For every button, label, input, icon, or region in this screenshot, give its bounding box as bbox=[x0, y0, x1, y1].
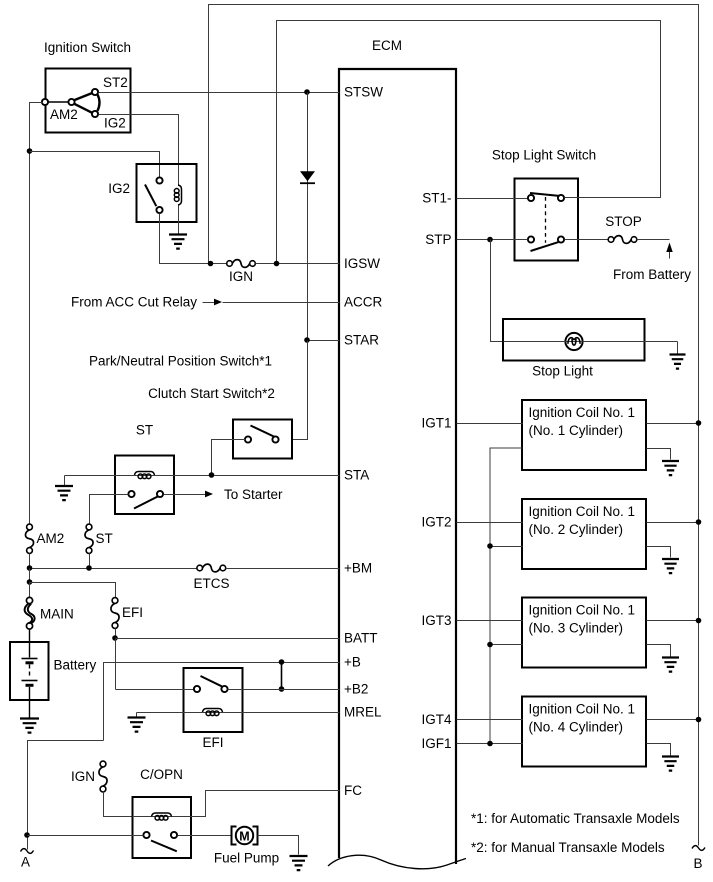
svg-text:STP: STP bbox=[425, 232, 451, 247]
svg-text:AM2: AM2 bbox=[50, 107, 78, 122]
junction B bus coil 2 bbox=[696, 519, 702, 525]
wire +B to +B2 tie bbox=[281, 662, 283, 689]
svg-text:Fuel Pump: Fuel Pump bbox=[214, 851, 279, 866]
svg-text:Ignition Switch: Ignition Switch bbox=[44, 40, 131, 55]
wire ECM IGT4 to coil 4 bbox=[457, 719, 523, 721]
lamp stop light bbox=[565, 333, 582, 350]
wire A bus to C OPN switch bbox=[28, 835, 144, 837]
wire ECM IGT1 to coil 1 bbox=[457, 423, 523, 425]
arrow into ACCR wire bbox=[203, 302, 215, 304]
wire fuel pump to ground bbox=[258, 836, 299, 855]
stop light switch upper contact bbox=[530, 193, 559, 196]
junction IGF coil 3 bbox=[487, 642, 493, 648]
svg-text:MAIN: MAIN bbox=[40, 607, 74, 622]
wire ST2 to ECM STSW bbox=[99, 92, 340, 94]
wire: outer loop from IGSW node over the top to B bus bbox=[209, 5, 699, 846]
wire ECM IGF1 to coil 4 bbox=[457, 743, 523, 745]
svg-text:Clutch Start Switch*2: Clutch Start Switch*2 bbox=[148, 386, 275, 401]
clutch start switch contacts bbox=[251, 426, 278, 439]
wire AM2 fuse to +BM bus bbox=[29, 554, 31, 569]
svg-text:+B2: +B2 bbox=[344, 682, 368, 697]
junction IGF coil 2 bbox=[487, 543, 493, 549]
svg-text:To Starter: To Starter bbox=[224, 487, 283, 502]
wire IGN fuse to C OPN coil bbox=[104, 792, 132, 817]
break symbol A bbox=[21, 849, 34, 854]
svg-text:From Battery: From Battery bbox=[613, 267, 691, 282]
fuse AM2 bbox=[27, 524, 33, 530]
svg-text:B: B bbox=[693, 856, 702, 871]
ground IG2 relay bbox=[169, 235, 187, 249]
junction IGSW/inner loop bbox=[274, 261, 280, 267]
svg-text:IGN: IGN bbox=[229, 269, 253, 284]
junction STA/clutch switch bbox=[209, 472, 215, 478]
EFI relay switch bbox=[201, 676, 222, 686]
ground ignition coil 2 bbox=[662, 559, 679, 573]
wire ST relay switch to starter arrow bbox=[164, 494, 206, 496]
svg-text:STA: STA bbox=[344, 468, 369, 483]
wire IG2 coil to ground bbox=[178, 206, 180, 234]
svg-text:IGT4: IGT4 bbox=[421, 712, 451, 727]
wire bus to ETCS fuse bbox=[30, 568, 197, 570]
wire to ECM BATT bbox=[116, 638, 340, 640]
junction EFI branch bbox=[27, 579, 33, 585]
wire EFI fuse down bbox=[115, 629, 117, 639]
svg-text:IGSW: IGSW bbox=[344, 256, 380, 271]
svg-text:AM2: AM2 bbox=[37, 531, 65, 546]
svg-text:ST: ST bbox=[96, 531, 113, 546]
ground EFI relay coil bbox=[128, 718, 146, 732]
svg-text:C/OPN: C/OPN bbox=[140, 767, 183, 782]
svg-text:IGT3: IGT3 bbox=[421, 613, 451, 628]
ground ST relay coil bbox=[55, 486, 73, 500]
wire ST relay coil line to ECM STA bbox=[65, 475, 340, 477]
junction IGSW/outer loop bbox=[208, 261, 214, 267]
wire +B feed bbox=[104, 663, 340, 741]
junction B bus coil 3 bbox=[696, 618, 702, 624]
junction STP/stop light bbox=[487, 237, 493, 243]
wire down to EFI relay switch bbox=[115, 639, 117, 690]
svg-text:FC: FC bbox=[344, 783, 362, 798]
wire clutch switch to STA node bbox=[212, 440, 246, 473]
svg-text:MREL: MREL bbox=[344, 705, 382, 720]
EFI relay coil bbox=[203, 709, 223, 713]
fusible link MAIN bbox=[26, 597, 32, 603]
wire coil 4 to ground bbox=[647, 744, 671, 756]
svg-text:Ignition Coil No. 1: Ignition Coil No. 1 bbox=[529, 702, 636, 717]
wire switch to inner loop bbox=[565, 197, 582, 199]
wire battery to ground bbox=[29, 687, 31, 718]
wire to EFI relay switch bbox=[116, 689, 195, 691]
svg-text:M: M bbox=[239, 830, 249, 844]
wire EFI relay coil line to ECM MREL bbox=[137, 712, 340, 714]
wire IG2 relay switch to IGN fuse bbox=[160, 214, 227, 264]
ground ignition coil 3 bbox=[662, 658, 679, 672]
ignition switch box bbox=[46, 69, 131, 133]
stop light switch link dashed bbox=[545, 197, 547, 243]
junction A bus / C OPN switch bbox=[24, 832, 30, 838]
wire down to connector A bbox=[28, 741, 104, 850]
svg-text:Ignition Coil No. 1: Ignition Coil No. 1 bbox=[529, 504, 636, 519]
ECM box (torn wavy bottom) bbox=[339, 69, 456, 864]
stop light box bbox=[503, 319, 645, 361]
svg-text:IGT1: IGT1 bbox=[421, 416, 451, 431]
svg-text:STSW: STSW bbox=[344, 85, 383, 100]
wire IGF bus bbox=[490, 448, 522, 744]
ground fuel pump bbox=[290, 856, 308, 870]
svg-text:(No. 4 Cylinder): (No. 4 Cylinder) bbox=[529, 720, 624, 735]
wire STAR down to clutch start switch bbox=[293, 341, 308, 440]
ignition coil No. 1 box bbox=[522, 400, 646, 470]
svg-text:ETCS: ETCS bbox=[193, 576, 229, 591]
clutch start switch box bbox=[233, 420, 292, 459]
junction STSW/diode bbox=[304, 89, 310, 95]
wire coil to ground stem bbox=[136, 713, 138, 717]
ground ignition coil 4 bbox=[662, 757, 679, 771]
wire to ECM ACCR bbox=[223, 302, 340, 304]
wire STP node down to stop light bbox=[491, 240, 504, 342]
wire ST fuse down bbox=[89, 554, 91, 569]
wire to EFI fuse bbox=[30, 583, 116, 598]
arrow From Battery bbox=[669, 251, 671, 259]
relay ST box bbox=[115, 456, 174, 515]
svg-text:BATT: BATT bbox=[344, 631, 378, 646]
svg-text:(No. 3 Cylinder): (No. 3 Cylinder) bbox=[529, 621, 624, 636]
ground ignition coil 1 bbox=[662, 461, 679, 475]
fuse IGN (EFI circuit) bbox=[100, 761, 106, 767]
stop light switch box bbox=[515, 179, 579, 261]
wire bus segment bbox=[29, 569, 31, 583]
svg-text:EFI: EFI bbox=[122, 605, 143, 620]
svg-text:STOP: STOP bbox=[605, 214, 642, 229]
junction AM2 fuse/bus bbox=[27, 565, 33, 571]
junction BATT bbox=[112, 635, 118, 641]
svg-text:IGN: IGN bbox=[71, 769, 95, 784]
C/OPN relay coil bbox=[152, 813, 172, 817]
svg-text:STAR: STAR bbox=[344, 333, 379, 348]
wire C OPN coil to ECM FC bbox=[192, 791, 340, 817]
wire ECM STP to switch bbox=[457, 239, 528, 241]
svg-text:ST1-: ST1- bbox=[422, 191, 451, 206]
wire through C OPN coil bbox=[133, 816, 192, 818]
fuse EFI bbox=[112, 598, 118, 604]
svg-text:ST: ST bbox=[136, 423, 153, 438]
ignition coil No. 3 box bbox=[522, 598, 646, 668]
svg-text:Ignition Coil No. 1: Ignition Coil No. 1 bbox=[529, 603, 636, 618]
wire through lamp to ground bbox=[504, 341, 678, 343]
wire bus to MAIN link bbox=[29, 583, 31, 598]
stop light switch lower contact bbox=[531, 242, 560, 251]
wire: inner loop from IGSW node to stop light switch ST1- side bbox=[277, 21, 661, 264]
wire to ECM STAR bbox=[308, 340, 340, 342]
wire coil 2 to B bus bbox=[647, 522, 699, 524]
wire EFI relay switch to ECM +B2 bbox=[228, 689, 340, 691]
wire IG2 terminal to IG2 relay coil bbox=[99, 115, 179, 186]
svg-text:Park/Neutral Position Switch*1: Park/Neutral Position Switch*1 bbox=[89, 354, 272, 369]
wire ECM ST1- to switch bbox=[457, 198, 528, 200]
IG2 relay coil bbox=[178, 185, 182, 205]
wire coil 2 to ground bbox=[647, 547, 671, 558]
ST relay coil bbox=[135, 472, 155, 476]
wire AM2 terminal down left bus bbox=[30, 103, 43, 525]
fuse IGN bbox=[227, 261, 233, 267]
ground battery bbox=[20, 719, 39, 733]
junction +B/+B2 tie top bbox=[279, 659, 285, 665]
battery symbol bbox=[29, 629, 31, 658]
svg-text:(No. 1 Cylinder): (No. 1 Cylinder) bbox=[529, 423, 624, 438]
wire coil line to ground stem bbox=[64, 476, 66, 486]
svg-text:IG2: IG2 bbox=[104, 116, 126, 131]
fuse STOP bbox=[608, 237, 614, 243]
wire ECM IGT2 to coil 2 bbox=[457, 522, 523, 524]
svg-text:*2: for Manual Transaxle Model: *2: for Manual Transaxle Models bbox=[471, 840, 665, 855]
svg-text:EFI: EFI bbox=[202, 735, 223, 750]
junction IGF coil 4 bbox=[487, 741, 493, 747]
fuse ST bbox=[86, 524, 92, 530]
wire IGF bus to coil 2 bbox=[491, 546, 523, 548]
relay EFI box bbox=[184, 668, 243, 732]
wire IGN fuse to ECM IGSW bbox=[256, 263, 340, 265]
ignition coil No. 2 box bbox=[522, 499, 646, 569]
ignition switch contacts AM2/ST2/IG2 bbox=[48, 101, 69, 103]
svg-text:+BM: +BM bbox=[344, 561, 372, 576]
svg-text:Ignition Coil No. 1: Ignition Coil No. 1 bbox=[529, 405, 636, 420]
wire coil 1 to B bus bbox=[647, 423, 699, 425]
battery box bbox=[10, 642, 49, 700]
ST relay switch bbox=[134, 497, 158, 509]
svg-text:ST2: ST2 bbox=[103, 75, 128, 90]
svg-text:IG2: IG2 bbox=[108, 181, 130, 196]
break symbol B bbox=[692, 846, 705, 851]
diode (to STAR) bbox=[307, 93, 309, 340]
junction B bus coil 1 bbox=[696, 420, 702, 426]
C/OPN relay switch bbox=[151, 841, 177, 852]
junction B bus coil 4 bbox=[696, 717, 702, 723]
wire ECM IGT3 to coil 3 bbox=[457, 620, 523, 622]
ignition coil No. 4 box bbox=[522, 697, 646, 767]
wire coil 4 to B bus bbox=[647, 719, 699, 721]
relay IG2 box bbox=[137, 164, 197, 222]
svg-text:*1: for Automatic Transaxle Mo: *1: for Automatic Transaxle Models bbox=[471, 811, 680, 826]
arrow To Starter bbox=[205, 491, 213, 498]
svg-text:IGT2: IGT2 bbox=[421, 515, 451, 530]
wire coil 3 to ground bbox=[647, 645, 671, 657]
junction ST fuse/bus bbox=[86, 565, 92, 571]
svg-text:ECM: ECM bbox=[372, 38, 402, 53]
svg-text:ACCR: ACCR bbox=[344, 295, 383, 310]
svg-text:Battery: Battery bbox=[54, 658, 97, 673]
wire IGF bus to coil 3 bbox=[491, 644, 523, 646]
wire ST relay switch to ST fuse bbox=[90, 495, 129, 525]
wire switch to STOP fuse bbox=[565, 239, 609, 241]
wire C OPN switch to fuel pump bbox=[178, 835, 232, 837]
svg-text:+B: +B bbox=[344, 655, 361, 670]
relay C/OPN box bbox=[133, 797, 192, 858]
junction +B2 tie bottom bbox=[279, 686, 285, 692]
wire coil 1 to ground bbox=[647, 449, 671, 460]
IG2 relay switch bbox=[145, 185, 156, 207]
wire to IG2 relay switch bbox=[30, 152, 160, 178]
fuel pump motor bbox=[232, 827, 237, 845]
svg-text:Stop Light: Stop Light bbox=[532, 364, 593, 379]
wire ETCS to ECM +BM bbox=[226, 568, 340, 570]
svg-text:(No. 2 Cylinder): (No. 2 Cylinder) bbox=[529, 522, 624, 537]
svg-text:Stop Light Switch: Stop Light Switch bbox=[492, 148, 596, 163]
svg-text:IGF1: IGF1 bbox=[421, 736, 451, 751]
lamp filament bbox=[568, 338, 574, 344]
ground stop light bbox=[670, 355, 686, 369]
fuse ETCS bbox=[197, 565, 203, 571]
wire coil 3 to B bus bbox=[647, 620, 699, 622]
junction STAR/diode branch bbox=[304, 337, 310, 343]
svg-text:A: A bbox=[21, 855, 30, 870]
svg-text:From ACC Cut Relay: From ACC Cut Relay bbox=[71, 295, 197, 310]
wire STOP fuse to battery arrow bbox=[637, 239, 670, 241]
wire stop light ground stem bbox=[677, 342, 679, 354]
junction AM2 bus / IG2 relay feed bbox=[27, 148, 33, 154]
